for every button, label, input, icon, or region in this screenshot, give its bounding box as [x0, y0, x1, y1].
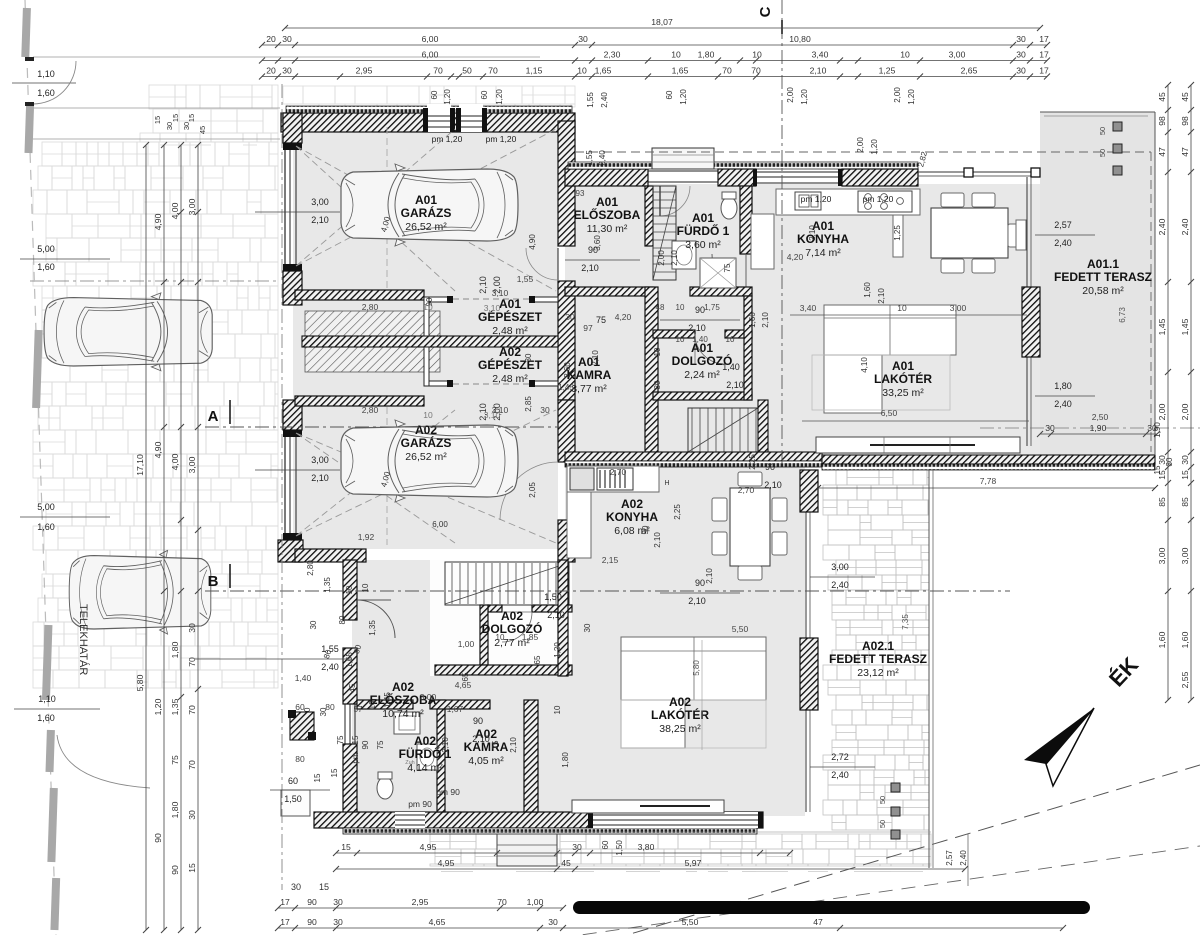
svg-text:5,50: 5,50 [732, 624, 749, 634]
svg-text:1,10: 1,10 [37, 69, 55, 79]
svg-text:18,07: 18,07 [651, 17, 673, 27]
guide lines top left [33, 56, 540, 58]
room label ELŐSZOBA [574, 195, 641, 235]
svg-text:1,20: 1,20 [679, 89, 688, 105]
svg-text:4,00: 4,00 [170, 453, 180, 470]
svg-text:LAKÓTÉR: LAKÓTÉR [651, 707, 709, 722]
boundary diagonal dashed bottom right [610, 765, 1200, 935]
toilet A01 [721, 197, 737, 219]
svg-text:pm 1,20: pm 1,20 [486, 134, 517, 144]
room label FEDETT TERASZ [1054, 257, 1152, 297]
svg-text:2,10: 2,10 [808, 225, 817, 241]
svg-text:pm 90: pm 90 [408, 799, 432, 809]
svg-text:3,10: 3,10 [484, 303, 501, 313]
wall garage/hall divider A02 upper [558, 400, 575, 462]
paving strip above garage [283, 86, 575, 113]
room label GÉPÉSZET [478, 297, 543, 337]
svg-text:1,80: 1,80 [170, 641, 180, 658]
svg-text:17: 17 [280, 917, 290, 927]
wall garage west pier 3 [283, 400, 302, 430]
room label FÜRDŐ 1 [677, 211, 730, 251]
kitchen counter A02 left [567, 492, 591, 558]
garage door A01 (west) [284, 146, 286, 268]
svg-text:17: 17 [1039, 66, 1049, 76]
svg-text:1,35: 1,35 [368, 620, 377, 636]
dimension row y=853 [333, 842, 793, 856]
svg-text:47: 47 [813, 917, 823, 927]
svg-text:H: H [664, 480, 669, 487]
wall wall A02 kamra east [524, 700, 538, 812]
dining table A01 [931, 208, 1008, 258]
svg-text:2,70: 2,70 [738, 485, 755, 495]
svg-text:2,40: 2,40 [831, 580, 849, 590]
dimension row y=908 [275, 897, 566, 911]
wall wall A02 dolgozo west [480, 605, 488, 665]
paving strip top center [490, 107, 572, 178]
svg-text:2,40: 2,40 [831, 770, 849, 780]
svg-text:30: 30 [333, 897, 343, 907]
svg-text:1,45: 1,45 [1157, 318, 1167, 335]
svg-text:1,00: 1,00 [527, 897, 544, 907]
wall wall furdo south [690, 287, 752, 296]
svg-text:1,20: 1,20 [553, 642, 562, 658]
svg-text:2,10: 2,10 [810, 66, 827, 76]
svg-text:10: 10 [726, 335, 735, 344]
svg-text:1,10: 1,10 [38, 694, 56, 704]
svg-text:GARÁZS: GARÁZS [401, 435, 452, 450]
svg-text:10,80: 10,80 [789, 34, 811, 44]
svg-text:75: 75 [491, 740, 500, 749]
wall garage/hall divider mid [558, 281, 575, 400]
svg-text:3,00: 3,00 [187, 456, 197, 473]
svg-text:3,00: 3,00 [831, 562, 849, 572]
porch steps A02 [497, 834, 557, 866]
dimension column x=146 [135, 142, 149, 933]
svg-text:1,55: 1,55 [517, 274, 534, 284]
svg-text:45: 45 [348, 683, 357, 692]
garage door A02 (west) [284, 433, 286, 536]
washing machine A02 [394, 712, 420, 734]
svg-text:4,65: 4,65 [429, 917, 446, 927]
svg-text:15: 15 [1157, 470, 1167, 480]
svg-text:60: 60 [430, 90, 439, 99]
stair A01 upper [688, 408, 758, 452]
svg-text:1,40: 1,40 [692, 335, 708, 344]
gepeszet A01 thin walls [424, 297, 451, 302]
floor A01 unit interior [565, 184, 1040, 454]
svg-text:2,10: 2,10 [877, 288, 886, 304]
svg-text:70: 70 [187, 657, 197, 667]
svg-text:3,60: 3,60 [593, 235, 602, 251]
svg-text:23,12 m²: 23,12 m² [857, 667, 899, 679]
svg-text:2,40: 2,40 [598, 150, 607, 166]
svg-text:2,40: 2,40 [1180, 218, 1190, 235]
svg-text:A01: A01 [892, 359, 914, 373]
svg-text:2,10: 2,10 [509, 737, 518, 753]
svg-text:2,10: 2,10 [764, 480, 782, 490]
svg-text:1,67: 1,67 [447, 704, 464, 714]
svg-text:15: 15 [171, 114, 180, 122]
svg-text:TELEKHATÁR: TELEKHATÁR [77, 604, 90, 675]
svg-text:6,50: 6,50 [881, 408, 898, 418]
floor A02 stair corner (white) [430, 560, 572, 676]
svg-text:1,20: 1,20 [443, 89, 452, 105]
room label LAKÓTÉR [874, 359, 932, 399]
room label KONYHA [606, 497, 658, 537]
svg-text:2,10: 2,10 [705, 568, 714, 584]
room label DOLGOZÓ [672, 341, 733, 381]
garage top wall outer dots [286, 106, 572, 113]
outside step SW [281, 790, 310, 816]
svg-text:70: 70 [751, 66, 761, 76]
svg-text:2,10: 2,10 [688, 596, 706, 606]
wall wall A02 dolgozo north e [532, 605, 572, 612]
washbasin A01 [672, 241, 696, 269]
svg-text:B: B [208, 573, 219, 590]
svg-text:1,80: 1,80 [698, 50, 715, 60]
svg-text:1,15: 1,15 [526, 66, 543, 76]
svg-text:2,95: 2,95 [356, 66, 373, 76]
svg-text:10: 10 [653, 347, 662, 356]
svg-text:30: 30 [187, 810, 197, 820]
window A02 west [344, 704, 346, 744]
svg-text:85: 85 [1180, 497, 1190, 507]
stair A02 [445, 563, 568, 604]
svg-text:FÜRDŐ 1: FÜRDŐ 1 [677, 223, 730, 238]
door garage A02 to hall [500, 462, 558, 520]
eaves dashed line top [575, 151, 1151, 153]
chimney block outside A02 [290, 712, 314, 740]
svg-text:1,80: 1,80 [170, 801, 180, 818]
svg-text:90: 90 [153, 833, 163, 843]
svg-text:1,25: 1,25 [893, 225, 902, 241]
svg-text:20,58 m²: 20,58 m² [1082, 285, 1124, 297]
room label ELŐSZOBA [370, 680, 437, 720]
svg-text:2,00: 2,00 [657, 250, 666, 266]
svg-text:2,48 m²: 2,48 m² [492, 373, 528, 385]
dining table A02 [730, 488, 770, 566]
svg-text:10: 10 [752, 50, 762, 60]
svg-text:2,60: 2,60 [563, 362, 572, 378]
svg-text:98: 98 [1180, 116, 1190, 126]
svg-text:70: 70 [497, 897, 507, 907]
floor A01.1 terrace [1040, 112, 1155, 455]
room label KAMRA [567, 355, 612, 395]
svg-text:A01.1: A01.1 [1087, 257, 1119, 271]
wall A02 west wall mid [343, 648, 357, 704]
svg-text:10: 10 [676, 335, 685, 344]
svg-text:80: 80 [338, 615, 347, 624]
car in garage A02 [341, 420, 518, 502]
svg-text:1,35: 1,35 [170, 698, 180, 715]
svg-text:15: 15 [153, 116, 162, 124]
svg-text:30: 30 [1045, 423, 1055, 433]
svg-text:3,00: 3,00 [950, 303, 967, 313]
svg-text:2,05: 2,05 [528, 482, 537, 498]
wall A01 north wall w of entrance [565, 169, 648, 186]
kitchen cabinet A01 [751, 214, 774, 269]
party wall through gepeszet [302, 336, 558, 347]
boundary diagonal dashed shallow [560, 846, 1200, 935]
svg-text:4,95: 4,95 [420, 842, 437, 852]
car on driveway 2 [69, 550, 211, 634]
svg-text:30: 30 [565, 312, 575, 322]
svg-text:3,00: 3,00 [311, 455, 329, 465]
svg-text:A01: A01 [499, 297, 521, 311]
svg-text:LAKÓTÉR: LAKÓTÉR [874, 371, 932, 386]
svg-text:10: 10 [671, 50, 681, 60]
paving strip upper driveway [140, 85, 278, 145]
svg-text:FEDETT TERASZ: FEDETT TERASZ [829, 652, 927, 666]
svg-text:1,90: 1,90 [1153, 422, 1162, 438]
floor A02 unit interior [565, 466, 805, 816]
svg-text:2,10: 2,10 [547, 610, 565, 620]
door dolgozo A02 [502, 612, 532, 642]
dimension row y=434 [1037, 423, 1160, 437]
floor A01 garage [293, 121, 558, 293]
svg-text:6,00: 6,00 [432, 520, 448, 529]
svg-text:A02: A02 [501, 609, 523, 623]
svg-text:90: 90 [695, 578, 705, 588]
svg-text:3,00: 3,00 [311, 197, 329, 207]
svg-text:2,00: 2,00 [786, 87, 795, 103]
kitchen counter A01 [776, 189, 920, 215]
svg-text:2,15: 2,15 [602, 555, 619, 565]
svg-text:30: 30 [540, 405, 550, 415]
svg-text:85: 85 [1157, 497, 1167, 507]
svg-text:1,92: 1,92 [358, 532, 375, 542]
fridge A01 [893, 215, 903, 257]
svg-text:2,10: 2,10 [472, 734, 490, 744]
svg-text:2,40: 2,40 [1157, 218, 1167, 235]
wall garage top [281, 113, 575, 132]
tv cabinet A01 [816, 437, 1020, 453]
dimension row y=45 [259, 34, 1050, 48]
terrace A02.1 edge [823, 469, 929, 471]
svg-text:30: 30 [282, 66, 292, 76]
svg-text:10: 10 [496, 633, 505, 642]
wall wall furdo/konyha [740, 186, 752, 254]
svg-text:98: 98 [1157, 116, 1167, 126]
wall garage west pier 2 [283, 271, 302, 305]
svg-text:5,80: 5,80 [692, 660, 701, 676]
wall pillar A01 terrace [1022, 287, 1040, 357]
wall wall dolgozo east [744, 296, 752, 400]
svg-text:2,80: 2,80 [362, 302, 379, 312]
wall A01 stair east [758, 400, 768, 452]
svg-text:1,90: 1,90 [1090, 423, 1107, 433]
svg-text:30: 30 [291, 882, 301, 892]
svg-text:75: 75 [723, 263, 732, 272]
svg-text:1,60: 1,60 [37, 522, 55, 532]
party wall A01/A02 [565, 452, 822, 461]
svg-text:4,20: 4,20 [787, 252, 804, 262]
room label DOLGOZÓ [482, 609, 543, 649]
dashed door swing X A01 garage [296, 129, 556, 291]
wall A02 west wall lower [343, 744, 357, 816]
svg-text:2,72: 2,72 [831, 752, 849, 762]
svg-text:1,60: 1,60 [1180, 631, 1190, 648]
svg-text:3,60 m²: 3,60 m² [685, 239, 721, 251]
svg-text:2,10: 2,10 [591, 350, 600, 366]
svg-text:3,00: 3,00 [187, 198, 197, 215]
svg-text:75: 75 [336, 735, 345, 744]
svg-text:2,25: 2,25 [748, 454, 757, 470]
svg-text:2,10: 2,10 [653, 532, 662, 548]
svg-text:2,30: 2,30 [604, 50, 621, 60]
room label FEDETT TERASZ [829, 639, 927, 679]
stove A02 [597, 468, 633, 490]
svg-text:1,60: 1,60 [37, 713, 55, 723]
room label KAMRA [464, 727, 509, 767]
dimension column x=198 [187, 142, 201, 933]
svg-text:50: 50 [462, 66, 472, 76]
svg-text:1,60: 1,60 [37, 262, 55, 272]
floor gepeszet block [293, 293, 558, 400]
svg-text:60: 60 [288, 776, 298, 786]
svg-text:1,80: 1,80 [561, 752, 570, 768]
svg-text:1,65: 1,65 [345, 652, 354, 668]
svg-text:ÉK: ÉK [1104, 652, 1143, 691]
wall garage A01 south wall [295, 290, 424, 300]
sink A01 [795, 192, 821, 210]
svg-text:2,65: 2,65 [961, 66, 978, 76]
svg-text:47: 47 [1157, 147, 1167, 157]
svg-text:17: 17 [1039, 50, 1049, 60]
terrace A02.1 paving [823, 470, 929, 830]
svg-text:2,00: 2,00 [893, 87, 902, 103]
wall A02 south wall [314, 812, 763, 828]
svg-text:2,10: 2,10 [670, 250, 679, 266]
svg-text:60: 60 [295, 702, 305, 712]
svg-text:15: 15 [330, 768, 339, 777]
svg-text:10: 10 [345, 585, 354, 594]
wall garage A02 north wall [295, 396, 424, 406]
svg-text:3,00: 3,00 [1180, 547, 1190, 564]
wall/glass A01 east to terrace [1026, 177, 1028, 446]
car in garage A01 [341, 164, 518, 246]
svg-text:26,52 m²: 26,52 m² [405, 221, 447, 233]
svg-text:FEDETT TERASZ: FEDETT TERASZ [1054, 270, 1152, 284]
svg-text:65: 65 [533, 655, 542, 664]
svg-text:10: 10 [361, 583, 370, 592]
svg-text:2,80: 2,80 [362, 405, 379, 415]
svg-text:10: 10 [897, 303, 907, 313]
svg-text:2,00: 2,00 [1180, 403, 1190, 420]
wall garage west pier 1 [283, 113, 302, 143]
svg-text:2,57: 2,57 [945, 850, 954, 866]
wall A02 west wall upper [343, 560, 357, 620]
svg-text:pm 1,20: pm 1,20 [432, 134, 463, 144]
svg-text:A02: A02 [621, 497, 643, 511]
downspout squares A02.1 [891, 783, 900, 792]
svg-text:15: 15 [1180, 470, 1190, 480]
svg-text:3,00: 3,00 [420, 692, 437, 702]
svg-text:45: 45 [1180, 92, 1190, 102]
svg-text:2,00: 2,00 [856, 137, 865, 153]
svg-text:1,55: 1,55 [586, 92, 595, 108]
svg-text:4,00: 4,00 [170, 202, 180, 219]
window garage top 1 [427, 104, 451, 132]
wall pillar A02 terrace N [800, 470, 818, 512]
svg-text:1,80: 1,80 [1054, 381, 1072, 391]
svg-text:80: 80 [325, 702, 335, 712]
svg-text:17: 17 [280, 897, 290, 907]
svg-text:30: 30 [583, 623, 592, 632]
svg-text:70: 70 [488, 66, 498, 76]
dimension column x=164 [153, 142, 167, 933]
svg-text:2,55: 2,55 [1180, 671, 1190, 688]
svg-text:5,00: 5,00 [37, 244, 55, 254]
svg-text:26,52 m²: 26,52 m² [405, 451, 447, 463]
svg-text:97: 97 [583, 323, 593, 333]
svg-text:1,20: 1,20 [870, 139, 879, 155]
wall garage block bottom [278, 540, 303, 562]
wall wall eloszoba/stair [645, 186, 653, 246]
svg-text:30: 30 [333, 917, 343, 927]
svg-text:15: 15 [313, 773, 322, 782]
room label GARÁZS [401, 193, 452, 233]
stove A01 [858, 191, 912, 212]
svg-text:1,20: 1,20 [800, 89, 809, 105]
svg-text:30: 30 [1016, 50, 1026, 60]
svg-text:60: 60 [665, 90, 674, 99]
kitchen appliance A02 [570, 468, 594, 490]
svg-text:1,45: 1,45 [558, 383, 574, 392]
svg-text:1,40: 1,40 [722, 362, 740, 372]
ramp hatch band A01 [305, 311, 440, 336]
svg-text:6,00: 6,00 [422, 50, 439, 60]
svg-text:75: 75 [596, 315, 606, 325]
svg-text:2,40: 2,40 [600, 92, 609, 108]
svg-text:2,10: 2,10 [761, 312, 770, 328]
svg-text:10: 10 [900, 50, 910, 60]
svg-text:2,40: 2,40 [321, 662, 339, 672]
gepeszet A02 thin walls [424, 381, 451, 386]
room label LAKÓTÉR [651, 695, 709, 735]
svg-text:1,75: 1,75 [704, 303, 720, 312]
svg-text:1,50: 1,50 [284, 794, 302, 804]
floor A02 garage [293, 400, 558, 549]
svg-text:2,70: 2,70 [610, 467, 627, 477]
svg-text:5,97: 5,97 [685, 858, 702, 868]
dimension column x=1168 [1157, 82, 1171, 703]
wall wall A02 dolgozo south [435, 665, 572, 675]
svg-text:2,10: 2,10 [478, 276, 488, 294]
window A01 bath north [756, 171, 840, 173]
svg-text:2,40: 2,40 [1054, 399, 1072, 409]
svg-text:A: A [208, 408, 219, 425]
svg-text:A01: A01 [692, 211, 714, 225]
svg-text:50: 50 [1098, 127, 1107, 135]
wall/glass A02 east to terrace [805, 470, 807, 812]
svg-text:70: 70 [722, 66, 732, 76]
svg-text:17: 17 [1039, 34, 1049, 44]
svg-text:45: 45 [198, 126, 207, 134]
svg-text:1,55: 1,55 [321, 644, 339, 654]
property boundary left (gray, slanted) [25, 0, 56, 935]
svg-text:1,55: 1,55 [585, 150, 594, 166]
svg-text:5,50: 5,50 [682, 917, 699, 927]
wall wall dolgozo north w [653, 330, 695, 338]
door dolgozo A01 [695, 334, 725, 364]
svg-text:5,00: 5,00 [37, 502, 55, 512]
svg-text:90: 90 [765, 462, 775, 472]
shower A01 [700, 258, 736, 288]
svg-text:A02: A02 [499, 345, 521, 359]
entry door A02 [357, 600, 395, 638]
axis line driveway [30, 280, 278, 282]
